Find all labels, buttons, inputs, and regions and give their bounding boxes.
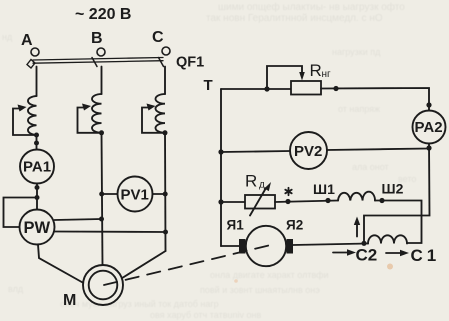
autotransformer coil phase C <box>155 94 165 133</box>
wiper arrow phase C <box>142 104 165 133</box>
dashed shaft coupling motor to armature <box>104 246 269 286</box>
wiper arrow phase A <box>13 105 37 136</box>
svg-text:влд: влд <box>8 284 24 294</box>
current direction arrow up <box>354 217 360 237</box>
rheostat Rng wiper loop <box>267 66 305 89</box>
svg-text:T: T <box>204 77 213 94</box>
wire Rd to shunt coil <box>275 201 338 203</box>
wire phase C drop to autotransformer <box>164 67 166 95</box>
wire PV2 left lead <box>221 151 290 152</box>
armature DC machine <box>246 226 286 266</box>
terminal C <box>162 47 170 55</box>
label C1 <box>411 246 441 265</box>
svg-text:повй и зовнт шнаятылнв онэ: повй и зовнт шнаятылнв онэ <box>200 285 320 295</box>
wiper arrow phase B <box>78 104 102 133</box>
junction coil C bottom <box>163 130 168 135</box>
wire left rail of DC circuit <box>220 89 222 246</box>
svg-text:онла двигате характ олтвфи: онла двигате характ олтвфи <box>210 270 329 280</box>
label arrow C2 <box>333 249 356 255</box>
junction coil B bottom <box>99 130 104 135</box>
rheostat Rng body <box>291 81 321 95</box>
label star <box>285 188 291 195</box>
motor M <box>83 265 123 305</box>
svg-text:~ 220 В: ~ 220 В <box>75 6 131 23</box>
armature wire left rail to brush <box>221 245 239 247</box>
wattmeter PW voltage loop <box>4 198 38 228</box>
terminal B label <box>91 30 103 47</box>
junction PV2 left rail <box>218 149 223 154</box>
svg-text:так новн Гералитнной инсцмедл.: так новн Гералитнной инсцмедл. с нО <box>206 13 383 24</box>
autotransformer coil phase B <box>92 94 102 133</box>
wire rail to Rd <box>221 201 245 203</box>
wire coil A to PA1 <box>36 135 38 150</box>
wire PW upper terminal to phase B <box>55 219 102 220</box>
junction after rheostat <box>333 86 338 91</box>
label arrow C1 <box>386 250 409 256</box>
label T <box>204 77 213 94</box>
junction phase B PW tap <box>99 217 104 222</box>
terminal B <box>97 48 105 56</box>
wire PV1 right lead <box>153 193 166 195</box>
voltmeter PV1 <box>118 177 153 212</box>
wire phase A drop to autotransformer <box>36 67 38 97</box>
svg-text:C: C <box>152 29 164 46</box>
terminal A label <box>21 32 33 49</box>
junction Sh2 <box>379 198 384 203</box>
junction PV1 left <box>99 192 104 197</box>
switch QF1 blade pole A <box>27 60 35 69</box>
wire rheostat to PA2 corner <box>321 88 429 111</box>
ammeter PA1 <box>20 150 54 184</box>
junction coil A bottom <box>34 133 39 138</box>
svg-text:овя харуб отч татвuniv онв: овя харуб отч татвuniv онв <box>150 310 261 320</box>
svg-text:PA1: PA1 <box>23 159 51 176</box>
wire Ya2 to C2 node <box>293 244 368 246</box>
switch QF1 blade pole C <box>159 58 164 67</box>
junction PW voltage tap <box>35 195 40 200</box>
wire PV2 right lead <box>327 149 429 151</box>
svg-text:Ш1: Ш1 <box>313 181 335 197</box>
junction C2 node <box>361 241 366 246</box>
svg-text:шими опщеф ылактиы- нв ыагруз: шими опщеф ылактиы- нв ыагрузк офто <box>218 1 405 13</box>
pink speck <box>234 279 238 283</box>
svg-text:д: д <box>259 180 265 191</box>
autotransformer coil phase A <box>28 96 37 135</box>
terminal C label <box>152 29 164 46</box>
junction below PA1 <box>35 185 40 190</box>
junction Sh1 <box>325 198 330 203</box>
resistor Rd body <box>245 195 275 209</box>
label Ya1 <box>227 218 245 233</box>
junction above PA1 <box>34 141 39 146</box>
label M <box>63 292 76 309</box>
svg-text:PA2: PA2 <box>415 119 443 136</box>
svg-text:Я1: Я1 <box>227 218 245 233</box>
svg-text:Я2: Я2 <box>286 218 303 233</box>
junction star terminal <box>285 199 290 204</box>
svg-text:онеч муап нагруз иный ток: онеч муап нагруз иный ток датоб нагр <box>60 299 219 309</box>
wire Sh2 to series coil right <box>375 201 422 244</box>
svg-text:нд: нд <box>2 32 13 42</box>
label Ya2 <box>286 218 303 233</box>
junction below PA2 <box>426 145 431 150</box>
svg-text:от напряж: от напряж <box>338 104 380 114</box>
wire PA1 to PW <box>36 184 38 210</box>
series winding coil C2-C1 <box>368 235 407 243</box>
ammeter PA2 <box>413 111 446 144</box>
junction rheostat wiper tap <box>264 86 269 91</box>
resistor Rd arrow <box>250 182 271 216</box>
label Rng <box>310 61 332 80</box>
wattmeter PW <box>20 210 55 245</box>
wire top rail to rheostat <box>221 88 291 90</box>
label QF1 <box>176 55 204 71</box>
svg-text:A: A <box>21 32 33 49</box>
brush Ya1 <box>239 239 246 254</box>
label Rd <box>245 172 265 191</box>
label ~220V supply <box>75 6 131 23</box>
pink speck 2 <box>387 264 393 270</box>
wire phase B to motor <box>102 133 103 266</box>
label C2 <box>356 246 378 265</box>
svg-text:R: R <box>310 61 322 80</box>
svg-text:М: М <box>63 292 76 309</box>
wire PW to motor M <box>38 245 84 284</box>
svg-text:PV1: PV1 <box>121 187 149 204</box>
label Sh2 <box>382 181 404 197</box>
wire phase C down <box>164 133 167 251</box>
wire PW lower terminal to phase C <box>55 231 166 234</box>
junction phase C PW tap <box>163 230 168 235</box>
terminal A <box>31 48 39 56</box>
svg-text:PV2: PV2 <box>294 143 322 160</box>
svg-text:C2: C2 <box>356 246 378 265</box>
svg-text:нг: нг <box>322 69 332 80</box>
shunt winding coil Sh1-Sh2 <box>338 192 375 201</box>
switch QF1 bar (double line) <box>33 58 163 64</box>
brush Ya2 <box>287 239 294 254</box>
svg-text:QF1: QF1 <box>176 55 204 71</box>
svg-text:ала онот: ала онот <box>352 162 389 172</box>
wire phase C diagonal to motor <box>123 251 166 278</box>
svg-text:Ш2: Ш2 <box>382 181 404 197</box>
junction Rd left rail <box>218 199 223 204</box>
wire PV1 left lead <box>102 193 118 195</box>
wire phase B drop to autotransformer <box>101 67 103 95</box>
svg-text:C1: C1 <box>411 246 441 265</box>
label Sh1 <box>313 181 335 197</box>
junction PV1 right <box>163 192 168 197</box>
svg-text:R: R <box>245 172 257 191</box>
svg-text:нагрузки пд: нагрузки пд <box>332 47 381 57</box>
svg-text:B: B <box>91 30 103 47</box>
wire PA2 down right rail <box>364 144 430 244</box>
switch QF1 blade pole B <box>92 58 97 67</box>
voltmeter PV2 <box>290 132 327 169</box>
svg-text:PW: PW <box>24 219 51 237</box>
junction above PA2 <box>426 102 431 107</box>
